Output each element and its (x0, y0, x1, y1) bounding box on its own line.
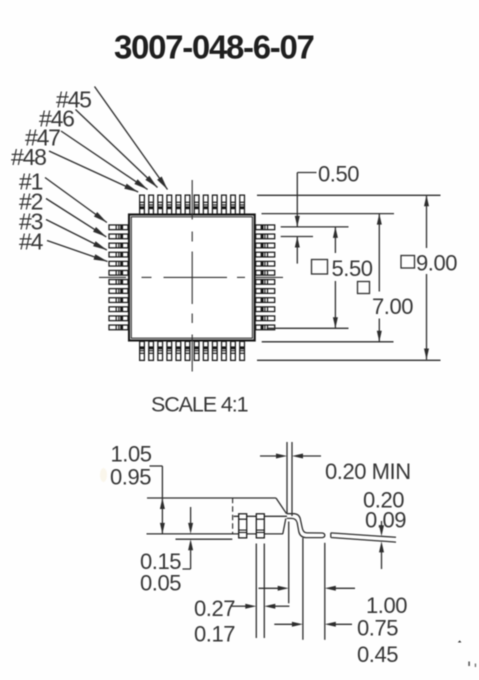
dimension 0.27/0.17 arrows (231, 604, 290, 609)
side view lead plane line (234, 515, 287, 517)
leader line #4 (47, 241, 108, 262)
dimension 0.15/0.05 arrows and bracket (183, 507, 194, 569)
svg-text:0.95: 0.95 (110, 465, 151, 490)
pin label #48 (11, 144, 46, 170)
dimension 0.20 MIN arrows (260, 454, 321, 459)
dimension 7.00 line (377, 214, 382, 342)
pin #15 (bottom row) (158, 341, 163, 360)
extension line pin tips top (257, 194, 441, 196)
pin label #4 (19, 229, 44, 255)
svg-text:0.20 MIN: 0.20 MIN (325, 459, 411, 484)
pin #27 (right column) (256, 307, 275, 312)
pin #6 (left column) (109, 270, 128, 275)
pin #42 (top row) (194, 195, 199, 214)
pin #45 (top row) (167, 195, 172, 214)
pin #10 (left column) (109, 307, 128, 312)
svg-text:0.75: 0.75 (357, 616, 398, 641)
square symbol for 9.00 (401, 256, 415, 269)
svg-text:0.17: 0.17 (194, 622, 235, 647)
pin #26 (right column) (256, 316, 275, 321)
vertical centerline of package (191, 180, 193, 372)
pin #32 (right column) (256, 261, 275, 266)
pin #14 (bottom row) (149, 341, 154, 360)
pin #3 (left column) (109, 243, 128, 248)
svg-text:1.05: 1.05 (111, 442, 152, 467)
pin #37 (top row) (240, 195, 245, 214)
horizontal centerline of package (99, 276, 283, 278)
pin #23 (bottom row) (231, 341, 236, 360)
pin #22 (bottom row) (222, 341, 227, 360)
extension line foot bend (for 1.00) (288, 522, 290, 604)
pin #30 (right column) (256, 280, 275, 285)
page artifact speck 1 (458, 640, 462, 642)
extension line lead tip (for 0.75 and 1.00) (324, 543, 326, 640)
pin #33 (right column) (256, 252, 275, 257)
pin #28 (right column) (256, 298, 275, 303)
dimension 0.20 MIN extension lines (287, 442, 292, 516)
lead cross-section (end-on lead 1) (239, 514, 247, 538)
pin #43 (top row) (185, 195, 190, 214)
package body outline (inner) (131, 217, 252, 338)
dimension 1.05/0.95 bracket and line (150, 466, 165, 534)
pin #34 (right column) (256, 243, 275, 248)
pin #2 (left column) (109, 234, 128, 239)
pin #24 (bottom row) (240, 341, 245, 360)
page artifact speck 3 (475, 664, 476, 668)
pin #25 (right column) (256, 325, 275, 330)
pin #8 (left column) (109, 289, 128, 294)
far-side lead strip (331, 533, 396, 542)
svg-text:#4: #4 (19, 229, 44, 255)
leader line #45 (95, 87, 168, 190)
pin #9 (left column) (109, 298, 128, 303)
pin #1 (left column) (109, 225, 128, 230)
pin #17 (bottom row) (176, 341, 181, 360)
pin #41 (top row) (203, 195, 208, 214)
pin label #46 (39, 106, 74, 132)
pin label #45 (56, 87, 91, 113)
pin label #3 (19, 209, 43, 235)
pin #47 (top row) (149, 195, 154, 214)
pin #21 (bottom row) (212, 341, 217, 360)
extension line foot start (for 0.75) (302, 538, 304, 640)
package body outline (outer) (129, 215, 255, 341)
pin #39 (top row) (222, 195, 227, 214)
extension line pin 35 centerline (281, 236, 313, 238)
dimension 0.20/0.09 lead thickness arrows (379, 521, 384, 569)
svg-text:0.45: 0.45 (357, 642, 398, 667)
pin #7 (left column) (109, 280, 128, 285)
square symbol for 5.50 (312, 260, 328, 275)
side view body bottom line (147, 533, 284, 535)
pin #35 (right column) (256, 234, 275, 239)
pin label #1 (19, 169, 43, 195)
svg-text:0.05: 0.05 (140, 571, 181, 596)
pin #11 (left column) (109, 316, 128, 321)
pin #38 (top row) (231, 195, 236, 214)
side view body top line (147, 497, 276, 499)
extension line body bottom (262, 341, 394, 343)
extension line pin 36 centerline (281, 226, 349, 228)
pin #12 (left column) (109, 325, 128, 330)
leader line #3 (46, 220, 107, 251)
pin #44 (top row) (176, 195, 181, 214)
side view body right slant lower (283, 519, 286, 534)
svg-text:0.50: 0.50 (318, 162, 359, 187)
pin #16 (bottom row) (167, 341, 172, 360)
svg-text:0.09: 0.09 (365, 508, 406, 533)
svg-text:0.27: 0.27 (194, 596, 235, 621)
side view seating plane line (176, 538, 233, 540)
dimension 0.50 pin pitch leader (295, 173, 317, 264)
pin label #47 (25, 125, 60, 151)
page artifact faint stain (100, 468, 107, 482)
dimension 9.00 line (424, 195, 429, 359)
svg-text:1.00: 1.00 (366, 593, 407, 618)
leader line #2 (46, 199, 106, 237)
dimension 0.27/0.17 extension lines (256, 544, 264, 639)
page artifact speck 2 (468, 662, 470, 667)
dimension 1.00 arrows (259, 586, 356, 591)
pin #18 (bottom row) (185, 341, 190, 360)
leader line #1 (45, 178, 107, 223)
pin #4 (left column) (109, 252, 128, 257)
svg-text:5.50: 5.50 (332, 256, 373, 281)
pin #19 (bottom row) (194, 341, 199, 360)
leader line #48 (49, 151, 138, 192)
gull-wing lead profile (287, 514, 325, 538)
leader line #46 (76, 110, 158, 188)
pin #5 (left column) (109, 261, 128, 266)
square symbol for 7.00 (358, 282, 370, 294)
lead cross-section (end-on lead 2) (256, 514, 264, 538)
svg-text:7.00: 7.00 (372, 294, 413, 319)
pin #40 (top row) (212, 195, 217, 214)
extension line pin tips bottom (257, 359, 441, 361)
pin #31 (right column) (256, 270, 275, 275)
dimension 0.75 arrows (274, 622, 352, 627)
pin #46 (top row) (158, 195, 163, 214)
extension line body top (262, 213, 395, 215)
pin #20 (bottom row) (203, 341, 208, 360)
svg-text:SCALE 4:1: SCALE 4:1 (151, 393, 248, 417)
dimension 5.50 line (333, 227, 338, 328)
side view body break line (dashed) (232, 498, 234, 534)
pin #36 (right column) (256, 225, 275, 230)
svg-text:#48: #48 (11, 144, 46, 170)
svg-text:9.00: 9.00 (416, 251, 457, 276)
pin #48 (top row) (140, 195, 145, 214)
leader line #47 (61, 131, 148, 190)
extension line pin 25 centerline (267, 327, 349, 329)
pin label #2 (19, 189, 43, 215)
svg-text:3007-048-6-07: 3007-048-6-07 (114, 29, 314, 66)
side view body right slant upper (276, 498, 287, 514)
pin #13 (bottom row) (140, 341, 145, 360)
pin #29 (right column) (256, 289, 275, 294)
